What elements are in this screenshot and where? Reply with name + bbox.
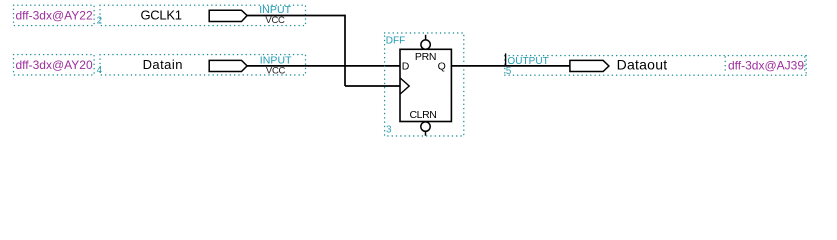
svg-text:3: 3	[386, 125, 392, 136]
node label box dff-3dx@AY22	[14, 5, 95, 25]
output pin symbol Dataout	[570, 60, 609, 71]
flip-flop selection box	[385, 33, 464, 136]
input pin symbol GCLK1	[209, 10, 247, 21]
PRN bubble	[421, 40, 430, 49]
svg-text:DFF: DFF	[386, 35, 405, 46]
svg-text:D: D	[402, 61, 410, 73]
CLRN stub	[425, 131, 427, 135]
svg-text:5: 5	[506, 66, 512, 77]
wire GCLK1 to clock pin	[345, 85, 400, 87]
clock triangle	[400, 78, 409, 94]
wire Q to output pin	[451, 65, 570, 67]
net tick	[505, 53, 507, 66]
wire Datain to D	[247, 65, 400, 67]
svg-text:VCC: VCC	[266, 65, 286, 76]
svg-text:dff-3dx@AJ39: dff-3dx@AJ39	[728, 58, 804, 72]
svg-text:GCLK1: GCLK1	[141, 8, 182, 23]
flip-flop body U3	[400, 49, 451, 121]
svg-text:dff-3dx@AY22: dff-3dx@AY22	[16, 8, 93, 22]
wire GCLK1 vertical	[344, 15, 346, 86]
node label box dff-3dx@AY20	[14, 55, 95, 75]
svg-text:CLRN: CLRN	[410, 109, 437, 121]
input pin symbol Datain	[209, 60, 247, 71]
svg-text:Datain: Datain	[143, 57, 183, 72]
svg-text:Dataout: Dataout	[617, 56, 668, 72]
svg-text:4: 4	[97, 65, 103, 76]
svg-text:VCC: VCC	[265, 15, 285, 26]
input pin GCLK1 selection box	[100, 5, 306, 25]
svg-text:Q: Q	[438, 61, 446, 73]
svg-text:OUTPUT: OUTPUT	[507, 56, 548, 67]
output pin Dataout selection box	[505, 56, 806, 76]
svg-text:2: 2	[97, 16, 103, 27]
PRN stub	[425, 35, 427, 40]
node label box dff-3dx@AJ39	[725, 57, 805, 74]
wire GCLK1 horizontal	[247, 15, 346, 17]
svg-text:dff-3dx@AY20: dff-3dx@AY20	[16, 58, 93, 72]
svg-text:PRN: PRN	[415, 51, 436, 63]
CLRN bubble	[421, 122, 430, 131]
input pin Datain selection box	[100, 55, 306, 75]
